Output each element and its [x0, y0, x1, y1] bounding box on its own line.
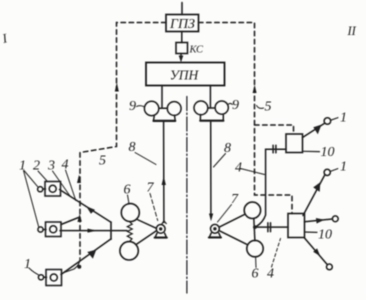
arrow up on dashed line left inner: [77, 175, 81, 183]
block 10 lower: [288, 214, 305, 238]
wire UPN to element 9 right: [209, 86, 211, 108]
svg-text:3: 3: [47, 159, 55, 174]
actuator line upper with arrow: [303, 123, 325, 137]
actuator circle 1 upper: [324, 118, 331, 125]
block 10 upper: [286, 134, 303, 153]
svg-text:5: 5: [99, 154, 106, 169]
svg-text:I: I: [0, 30, 9, 46]
actuator circle 1 mid: [324, 169, 330, 175]
riser to upper block 10: [256, 149, 286, 226]
axis between right floats: [254, 218, 255, 240]
hook from dashed line to box C: [64, 258, 80, 273]
coupling line to lower block 10: [257, 226, 288, 228]
center axis dash-dot: [186, 97, 188, 294]
svg-text:1: 1: [24, 257, 31, 272]
svg-text:10: 10: [318, 228, 332, 243]
element 9 left motor-generator: [144, 101, 181, 121]
gyro float 6 left top: [121, 204, 139, 222]
shaft 8 left: [163, 121, 165, 223]
svg-text:КС: КС: [189, 45, 204, 56]
svg-text:УПН: УПН: [170, 68, 200, 83]
wire GPZ-KS: [181, 32, 183, 43]
svg-text:II: II: [347, 24, 357, 38]
actuator circle c: [327, 264, 333, 270]
arrow up on dashed line left outer: [115, 82, 119, 91]
coupling ticks lower: [267, 223, 269, 232]
spring between floats: [127, 222, 132, 242]
pickoff 7 right: [209, 224, 221, 237]
sensor box C: [38, 270, 61, 286]
svg-text:7: 7: [147, 181, 155, 196]
svg-text:7: 7: [231, 192, 239, 207]
gyro float 6 right bottom: [247, 240, 263, 256]
link pickoff 7 right to float top: [220, 214, 245, 227]
link float top to pickoff 7 left: [137, 220, 156, 229]
svg-text:10: 10: [321, 145, 335, 160]
signal line from box C: [61, 239, 111, 275]
svg-text:6: 6: [252, 267, 259, 282]
dashed branch to upper block 10: [255, 125, 294, 134]
wire box B to dashed line: [61, 218, 79, 225]
wire antenna: [181, 3, 183, 15]
actuator circle b: [332, 216, 338, 222]
gyro float 6 left bottom: [120, 242, 138, 260]
actuator line lower c: [305, 238, 328, 265]
svg-text:2: 2: [33, 159, 40, 174]
actuator line lower b: [305, 219, 333, 222]
link pickoff 7 right to float bottom: [220, 231, 248, 245]
arrow up on dashed line right: [253, 85, 257, 93]
junction dot right: [253, 225, 257, 229]
actuator line lower a: [303, 175, 325, 216]
pickoff 7 left: [155, 221, 167, 238]
svg-text:4: 4: [235, 161, 242, 176]
block GPZ: [166, 15, 199, 32]
svg-text:ГПЗ: ГПЗ: [169, 17, 195, 32]
signal line from box A: [60, 190, 112, 223]
summing bracket: [110, 222, 112, 239]
svg-text:1: 1: [340, 160, 347, 175]
wire dashed right path 5: [199, 23, 293, 214]
svg-text:6: 6: [124, 183, 131, 198]
element 9 right motor-generator: [194, 101, 228, 121]
wire UPN to element 9 left: [161, 86, 163, 108]
sensor box A: [38, 182, 61, 197]
block KS: [176, 43, 188, 54]
arrow on dashed line at junction: [77, 214, 81, 222]
svg-text:8: 8: [129, 140, 136, 155]
signal line from box B: [60, 230, 127, 232]
coupling ticks upper: [272, 145, 274, 152]
wire KS-UPN with arrow: [180, 54, 182, 58]
shaft 8 right: [210, 121, 212, 215]
gyro float 6 right top: [244, 202, 260, 218]
svg-text:5: 5: [265, 100, 272, 115]
link float bottom to pickoff 7 left: [137, 231, 157, 244]
wire dashed left path 5: [80, 23, 166, 259]
svg-text:4: 4: [62, 158, 69, 173]
svg-text:9: 9: [129, 99, 136, 114]
svg-text:4: 4: [267, 267, 274, 282]
sensor box B: [38, 222, 61, 237]
block UPN: [146, 63, 225, 86]
svg-text:9: 9: [232, 98, 239, 113]
svg-text:1: 1: [340, 111, 347, 126]
